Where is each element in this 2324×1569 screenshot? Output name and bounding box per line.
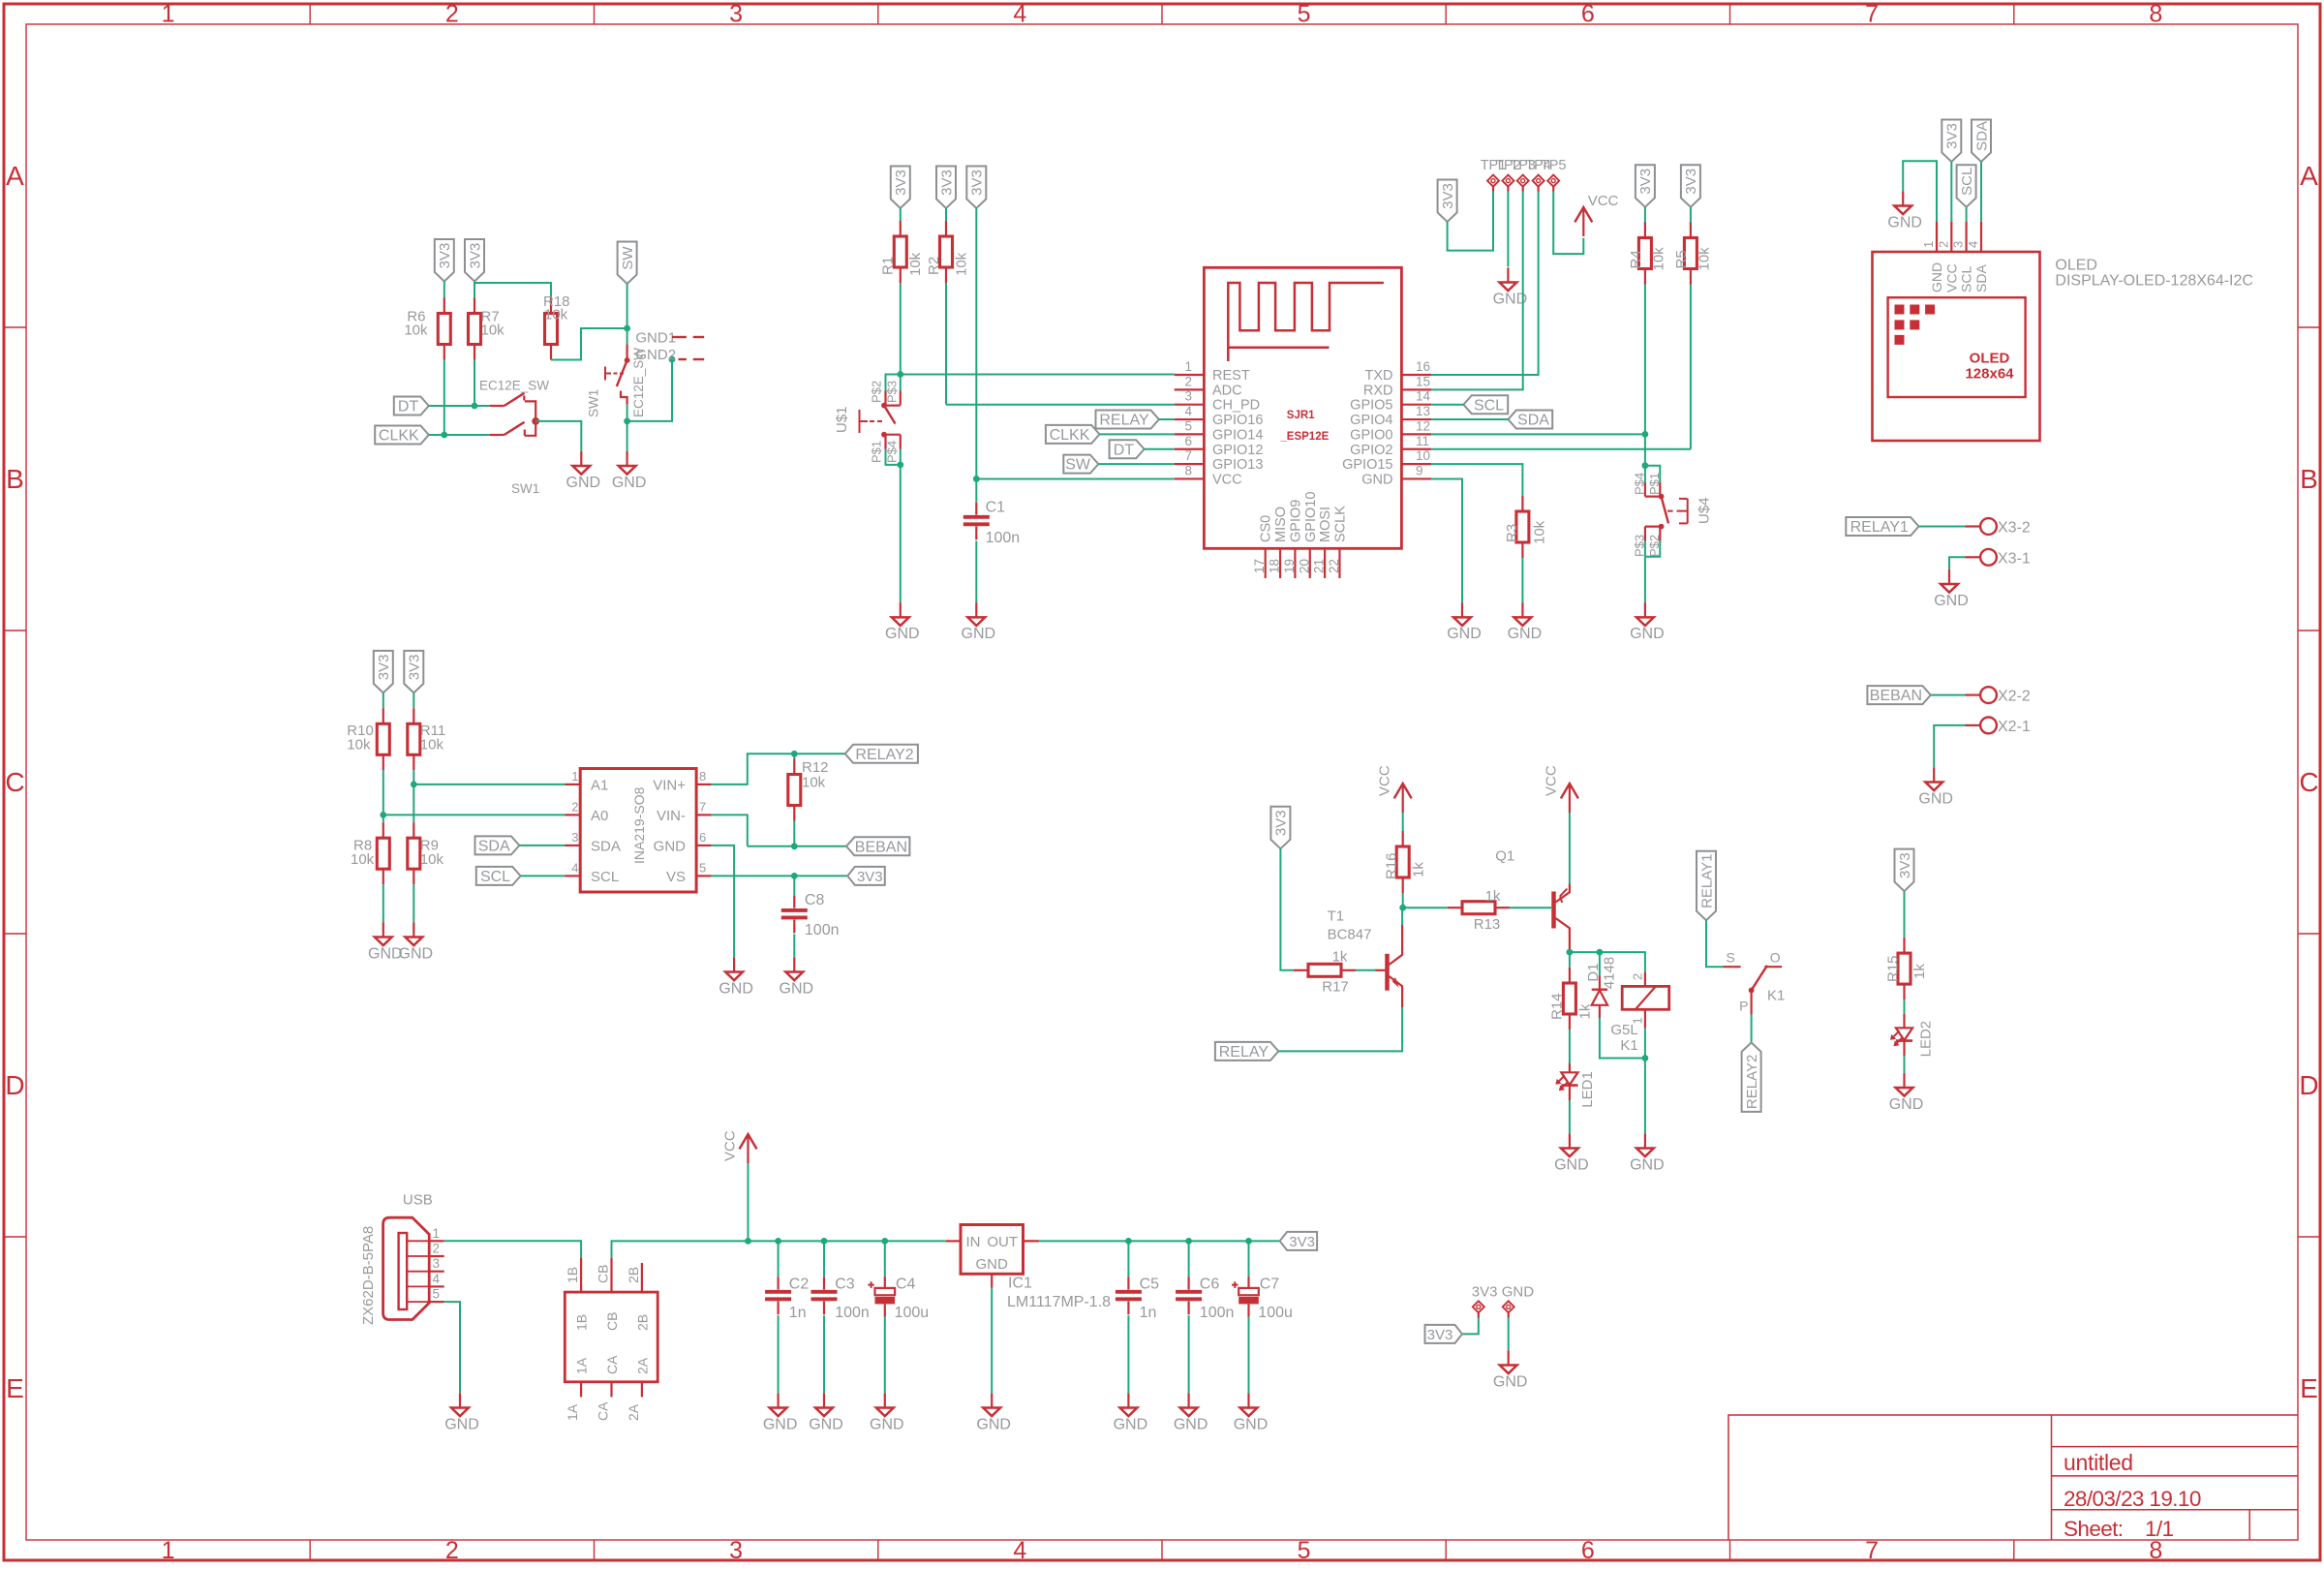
svg-text:GND: GND bbox=[976, 1416, 1011, 1432]
svg-text:P$2: P$2 bbox=[870, 381, 884, 403]
svg-text:4: 4 bbox=[1013, 1537, 1026, 1564]
pin 2 USB bbox=[407, 1255, 429, 1257]
svg-text:CA: CA bbox=[604, 1355, 620, 1374]
svg-text:16: 16 bbox=[1416, 359, 1430, 374]
svg-text:1: 1 bbox=[1184, 359, 1192, 374]
pin 2 ADC bbox=[1175, 388, 1205, 390]
svg-text:3V3: 3V3 bbox=[1273, 810, 1290, 836]
wire GND pin6 bbox=[712, 846, 734, 957]
testpoint TP4 bbox=[1533, 175, 1544, 187]
pin 8 VIN+ bbox=[696, 784, 712, 785]
svg-text:100u: 100u bbox=[895, 1305, 930, 1321]
svg-text:7: 7 bbox=[699, 799, 706, 814]
svg-text:3V3: 3V3 bbox=[1289, 1234, 1315, 1250]
supply flag 3V3 (VS) bbox=[847, 867, 885, 885]
svg-text:2: 2 bbox=[445, 1537, 459, 1564]
svg-text:6: 6 bbox=[1184, 434, 1192, 448]
node bbox=[791, 843, 798, 849]
svg-text:CS0: CS0 bbox=[1259, 515, 1274, 542]
svg-text:1: 1 bbox=[162, 1, 175, 28]
svg-text:10k: 10k bbox=[907, 252, 924, 276]
resistor R6 bbox=[443, 298, 445, 314]
testpoint TP5 bbox=[1547, 175, 1559, 187]
svg-text:TP5: TP5 bbox=[1541, 158, 1567, 173]
net flag SW bbox=[1063, 455, 1098, 474]
wire bbox=[474, 360, 475, 407]
svg-text:2: 2 bbox=[1631, 973, 1645, 980]
svg-text:7: 7 bbox=[1865, 1, 1879, 28]
svg-text:2A: 2A bbox=[634, 1357, 650, 1374]
svg-text:GND: GND bbox=[654, 838, 687, 854]
svg-text:D: D bbox=[2299, 1070, 2318, 1100]
svg-text:P$3: P$3 bbox=[885, 381, 900, 403]
svg-text:E: E bbox=[2300, 1373, 2318, 1403]
wire pin8 net bbox=[976, 477, 1174, 479]
wire bbox=[521, 875, 566, 877]
testpoint GND bbox=[1503, 1301, 1514, 1312]
svg-text:SCL: SCL bbox=[1959, 266, 1974, 292]
pin 14 GPIO5 bbox=[1401, 404, 1431, 406]
wire bbox=[627, 405, 628, 421]
pin 15 RXD bbox=[1401, 388, 1431, 390]
wire bbox=[1098, 463, 1174, 465]
supply flag 3V3 (rail) bbox=[1280, 1232, 1318, 1250]
svg-text:19: 19 bbox=[1282, 559, 1297, 573]
svg-text:6: 6 bbox=[699, 830, 706, 845]
wire bbox=[1521, 558, 1523, 602]
svg-text:4148: 4148 bbox=[1601, 957, 1617, 989]
ground bbox=[1644, 1133, 1646, 1148]
wire bbox=[429, 405, 490, 407]
net flag RELAY bbox=[1215, 1042, 1278, 1061]
wire bbox=[1690, 207, 1692, 225]
svg-text:1A: 1A bbox=[565, 1403, 580, 1421]
wire bbox=[1508, 1318, 1510, 1351]
pin 13 GPIO4 bbox=[1401, 418, 1431, 420]
net flag SCL bbox=[476, 867, 521, 885]
wire bbox=[1569, 813, 1571, 884]
pin CA bbox=[610, 1382, 612, 1398]
supply flag 3V3 (R10) bbox=[374, 651, 393, 693]
pin 4 SDA bbox=[1980, 222, 1982, 252]
svg-text:T1: T1 bbox=[1328, 908, 1345, 925]
resistor R8 bbox=[382, 815, 384, 822]
svg-text:1k: 1k bbox=[1332, 949, 1348, 966]
svg-text:3V3: 3V3 bbox=[1897, 852, 1913, 878]
pin X3-2 bbox=[1966, 525, 1981, 527]
pin 22 SCLK bbox=[1338, 548, 1340, 578]
svg-text:BEBAN: BEBAN bbox=[855, 839, 907, 855]
ground bbox=[1127, 1393, 1129, 1407]
wire emitter net bbox=[1570, 952, 1645, 972]
svg-text:GND: GND bbox=[1918, 790, 1953, 807]
svg-text:CB: CB bbox=[604, 1312, 620, 1331]
wire bbox=[1145, 448, 1175, 450]
net flag BEBAN bbox=[846, 837, 909, 855]
ground bbox=[1508, 1350, 1510, 1365]
svg-text:X3-2: X3-2 bbox=[1998, 520, 2031, 537]
svg-text:X2-2: X2-2 bbox=[1998, 689, 2031, 705]
wire bbox=[1966, 207, 1968, 222]
svg-text:6: 6 bbox=[1581, 1, 1595, 28]
pin 7 VIN- bbox=[696, 814, 712, 815]
node bbox=[1642, 462, 1649, 469]
svg-text:1n: 1n bbox=[1140, 1305, 1157, 1321]
svg-text:GND: GND bbox=[1630, 1156, 1665, 1173]
capacitor C5 bbox=[1125, 1238, 1132, 1245]
net flag RELAY1 bbox=[1846, 517, 1918, 536]
supply flag 3V3 (OLED) bbox=[1942, 120, 1961, 163]
pin 1 GND bbox=[1936, 222, 1938, 252]
resistor R14 bbox=[1569, 952, 1571, 968]
wire pin2 net bbox=[383, 814, 566, 815]
net flag SCL (OLED) bbox=[1957, 165, 1976, 207]
svg-text:10k: 10k bbox=[1651, 247, 1667, 271]
svg-text:OLED: OLED bbox=[1970, 351, 2010, 367]
svg-text:K1: K1 bbox=[1620, 1037, 1637, 1054]
ground bbox=[991, 1393, 993, 1407]
ground bbox=[1903, 1073, 1905, 1088]
ground bbox=[1902, 191, 1904, 205]
node bbox=[441, 432, 447, 439]
resistor R16 bbox=[1402, 831, 1404, 846]
svg-text:1: 1 bbox=[433, 1226, 441, 1241]
supply flag 3V3 (R4) bbox=[1636, 165, 1655, 207]
svg-text:X2-1: X2-1 bbox=[1998, 719, 2031, 735]
svg-text:11: 11 bbox=[1416, 434, 1429, 448]
svg-text:100n: 100n bbox=[835, 1305, 870, 1321]
svg-text:GND: GND bbox=[444, 1416, 479, 1432]
svg-text:LM1117MP-1.8: LM1117MP-1.8 bbox=[1007, 1294, 1111, 1310]
svg-text:DISPLAY-OLED-128X64-I2C: DISPLAY-OLED-128X64-I2C bbox=[2055, 273, 2253, 290]
svg-text:3V3: 3V3 bbox=[467, 243, 483, 269]
svg-text:BEBAN: BEBAN bbox=[1870, 688, 1922, 704]
wire bbox=[382, 692, 384, 708]
svg-text:B: B bbox=[2300, 464, 2318, 494]
svg-text:10k: 10k bbox=[481, 323, 505, 339]
ground bbox=[1461, 602, 1463, 617]
svg-text:C6: C6 bbox=[1200, 1277, 1220, 1293]
svg-text:C3: C3 bbox=[835, 1277, 855, 1293]
power symbol VCC bbox=[1575, 207, 1592, 222]
svg-text:17: 17 bbox=[1252, 559, 1267, 573]
svg-text:RELAY2: RELAY2 bbox=[1744, 1055, 1760, 1109]
power symbol VCC (Q1) bbox=[1561, 784, 1578, 798]
pin 4 USB bbox=[407, 1285, 429, 1287]
svg-text:SCL: SCL bbox=[480, 869, 510, 885]
pin 18 MISO bbox=[1279, 548, 1281, 578]
svg-text:3V3: 3V3 bbox=[938, 169, 955, 196]
wire bbox=[1402, 893, 1404, 908]
wire bbox=[1278, 1007, 1402, 1051]
svg-text:SCL: SCL bbox=[1959, 168, 1975, 196]
svg-text:3V3: 3V3 bbox=[376, 655, 392, 681]
wire bbox=[1448, 192, 1493, 251]
svg-text:U$4: U$4 bbox=[1697, 497, 1713, 524]
resistor R10 bbox=[382, 708, 384, 723]
wire pin5 to GND bbox=[444, 1302, 460, 1393]
svg-text:5: 5 bbox=[1298, 1, 1311, 28]
ground bbox=[1948, 569, 1950, 584]
svg-text:VCC: VCC bbox=[1588, 193, 1619, 209]
svg-text:1k: 1k bbox=[1485, 888, 1501, 905]
svg-text:3V3: 3V3 bbox=[1427, 1327, 1453, 1343]
svg-text:1: 1 bbox=[1921, 241, 1936, 248]
svg-text:B: B bbox=[6, 464, 24, 494]
wire bbox=[1644, 1028, 1646, 1058]
svg-text:GPIO13: GPIO13 bbox=[1212, 457, 1263, 473]
svg-text:3V3: 3V3 bbox=[1440, 183, 1456, 209]
wire bbox=[382, 770, 384, 815]
svg-text:GND: GND bbox=[1114, 1416, 1148, 1432]
svg-text:GND: GND bbox=[612, 475, 647, 491]
ground bbox=[900, 602, 902, 617]
svg-text:U$1: U$1 bbox=[834, 406, 850, 433]
svg-text:LED2: LED2 bbox=[1917, 1021, 1934, 1058]
svg-text:4: 4 bbox=[1966, 241, 1980, 248]
wire bbox=[1904, 1000, 1906, 1014]
capacitor C4 polarized bbox=[881, 1238, 888, 1245]
svg-text:GND: GND bbox=[1508, 626, 1543, 642]
pin X3-1 bbox=[1980, 549, 1997, 566]
ground bbox=[777, 1393, 779, 1407]
svg-text:10k: 10k bbox=[1697, 247, 1713, 271]
wire bbox=[1980, 162, 1982, 222]
antenna meander bbox=[1228, 283, 1384, 361]
node bbox=[1399, 905, 1406, 911]
svg-text:3V3: 3V3 bbox=[1637, 169, 1654, 195]
svg-text:GPIO9: GPIO9 bbox=[1288, 500, 1303, 542]
svg-text:100n: 100n bbox=[1200, 1305, 1235, 1321]
supply flag 3V3 (R6) bbox=[435, 239, 454, 282]
title block bbox=[1728, 1415, 2298, 1540]
net flag DT bbox=[394, 397, 429, 415]
wire bbox=[1403, 907, 1448, 908]
svg-text:IC1: IC1 bbox=[1008, 1276, 1032, 1292]
wire bbox=[1600, 1018, 1645, 1059]
pin 10 GPIO15 bbox=[1401, 463, 1431, 465]
resistor R11 bbox=[413, 708, 414, 723]
ground bbox=[1933, 767, 1935, 782]
svg-text:TXD: TXD bbox=[1365, 368, 1393, 384]
svg-text:GPIO10: GPIO10 bbox=[1303, 492, 1319, 542]
wire bbox=[1569, 1030, 1571, 1063]
wire VIN- net bbox=[712, 815, 846, 846]
svg-text:R12: R12 bbox=[802, 759, 829, 776]
svg-text:100n: 100n bbox=[805, 922, 840, 938]
capacitor C6 bbox=[1185, 1238, 1192, 1245]
svg-text:MISO: MISO bbox=[1273, 507, 1289, 542]
node bbox=[1642, 1055, 1649, 1061]
ground bbox=[1247, 1393, 1249, 1407]
svg-text:GPIO4: GPIO4 bbox=[1350, 413, 1392, 428]
svg-text:3V3: 3V3 bbox=[969, 169, 986, 196]
wire bbox=[975, 208, 977, 478]
svg-text:3V3: 3V3 bbox=[1944, 123, 1961, 149]
svg-text:VCC: VCC bbox=[1943, 263, 1959, 292]
net flag RELAY2 (K1) bbox=[1742, 1042, 1761, 1112]
wire TP5 to VCC bbox=[1553, 192, 1583, 255]
svg-text:VCC: VCC bbox=[1212, 472, 1242, 487]
LED LED2 bbox=[1903, 1014, 1905, 1028]
wire bbox=[793, 821, 795, 846]
wire bbox=[1690, 285, 1692, 449]
svg-text:ADC: ADC bbox=[1212, 383, 1242, 398]
pin 1A bbox=[580, 1382, 582, 1398]
svg-text:SCL: SCL bbox=[591, 869, 619, 885]
wire bbox=[1950, 162, 1952, 222]
svg-text:3V3: 3V3 bbox=[1472, 1284, 1498, 1301]
svg-text:SDA: SDA bbox=[591, 838, 621, 854]
svg-text:2: 2 bbox=[1184, 374, 1192, 388]
svg-text:3: 3 bbox=[1951, 241, 1966, 248]
testpoint TP1 bbox=[1487, 175, 1499, 187]
svg-text:3: 3 bbox=[433, 1256, 441, 1271]
svg-text:GND: GND bbox=[885, 626, 920, 642]
wire bbox=[429, 434, 490, 436]
svg-text:128x64: 128x64 bbox=[1965, 366, 2014, 383]
pin 21 MOSI bbox=[1324, 548, 1326, 578]
wire bbox=[945, 283, 947, 405]
svg-text:RELAY: RELAY bbox=[1219, 1044, 1269, 1061]
svg-text:4: 4 bbox=[433, 1272, 441, 1286]
svg-text:GND: GND bbox=[1554, 1156, 1589, 1173]
supply flag 3V3 (R1) bbox=[891, 167, 910, 209]
wire GPIO0 net bbox=[1431, 433, 1645, 435]
svg-text:15: 15 bbox=[1416, 374, 1430, 388]
pin X2-1 bbox=[1980, 718, 1997, 734]
svg-text:3V3: 3V3 bbox=[857, 869, 883, 885]
svg-text:GND: GND bbox=[1887, 214, 1922, 231]
jumper block solder bridge bbox=[565, 1292, 657, 1382]
svg-text:100u: 100u bbox=[1258, 1305, 1293, 1321]
svg-text:GND: GND bbox=[1630, 626, 1665, 642]
svg-text:VCC: VCC bbox=[1377, 765, 1393, 796]
pin 3 SCL bbox=[1965, 222, 1967, 252]
ground bbox=[884, 1393, 886, 1407]
svg-text:9: 9 bbox=[1416, 463, 1423, 477]
net flag RELAY bbox=[1096, 411, 1159, 429]
wire GPIO15 to R3 bbox=[1431, 464, 1522, 496]
svg-text:10k: 10k bbox=[404, 323, 428, 339]
supply flag 3V3 (R5) bbox=[1681, 165, 1700, 207]
testpoint TP2 bbox=[1502, 175, 1514, 187]
pin 12 GPIO0 bbox=[1401, 433, 1431, 435]
svg-text:10k: 10k bbox=[420, 851, 444, 868]
svg-text:VS: VS bbox=[666, 869, 686, 885]
transistor T1 BC847 bbox=[1376, 969, 1386, 971]
svg-text:GPIO14: GPIO14 bbox=[1212, 427, 1263, 443]
pin 4 SCL bbox=[566, 875, 581, 877]
wire bbox=[1931, 694, 1966, 696]
ground bbox=[1569, 1133, 1571, 1148]
svg-text:10k: 10k bbox=[1532, 520, 1548, 544]
node bbox=[897, 371, 903, 378]
wire CB to rail bbox=[612, 1241, 946, 1257]
wire bbox=[474, 282, 551, 298]
wire bbox=[1904, 1056, 1906, 1073]
svg-text:10k: 10k bbox=[351, 851, 375, 868]
svg-text:13: 13 bbox=[1416, 404, 1430, 418]
node SW-R18 junction bbox=[624, 325, 630, 332]
svg-text:7: 7 bbox=[1184, 448, 1192, 463]
pin 9 GND bbox=[1401, 477, 1431, 479]
svg-text:P: P bbox=[1739, 999, 1748, 1014]
svg-text:VCC: VCC bbox=[1544, 765, 1560, 796]
wire bbox=[551, 328, 627, 360]
wire bbox=[1100, 433, 1175, 435]
svg-text:GPIO12: GPIO12 bbox=[1212, 443, 1263, 458]
connector USB ZX62D-B-5PA8 bbox=[383, 1217, 430, 1319]
svg-text:C: C bbox=[5, 767, 24, 797]
wire TP4 to TXD bbox=[1431, 192, 1539, 376]
svg-text:VIN-: VIN- bbox=[657, 808, 686, 824]
pin 2B bbox=[641, 1263, 643, 1292]
supply flag 3V3 (R15) bbox=[1895, 849, 1914, 892]
svg-text:INA219-SO8: INA219-SO8 bbox=[631, 786, 647, 864]
resistor R3 bbox=[1521, 496, 1523, 511]
ground bbox=[459, 1393, 461, 1407]
net flag SDA bbox=[475, 836, 520, 854]
svg-text:RELAY1: RELAY1 bbox=[1850, 519, 1909, 536]
wire bbox=[945, 208, 947, 221]
svg-text:P$1: P$1 bbox=[870, 441, 884, 463]
svg-text:R2: R2 bbox=[926, 257, 942, 275]
capacitor C2 bbox=[775, 1238, 781, 1245]
pin 16 TXD bbox=[1401, 374, 1431, 376]
wire bbox=[413, 692, 414, 708]
ground bbox=[382, 922, 384, 937]
svg-text:C8: C8 bbox=[805, 892, 825, 908]
power symbol VCC (R16) bbox=[1394, 784, 1412, 798]
pin 8 VCC bbox=[1175, 477, 1205, 479]
node bbox=[624, 418, 630, 425]
switch U$1 bbox=[886, 375, 901, 391]
wire pin3 net bbox=[946, 404, 1175, 406]
supply flag 3V3 (R11) bbox=[404, 651, 423, 693]
svg-text:C1: C1 bbox=[986, 500, 1006, 516]
net flag DT bbox=[1110, 440, 1145, 458]
pin 19 GPIO9 bbox=[1294, 548, 1296, 578]
wire bbox=[900, 465, 902, 602]
svg-text:22: 22 bbox=[1327, 559, 1341, 573]
svg-text:E: E bbox=[6, 1373, 24, 1403]
svg-text:X3-1: X3-1 bbox=[1998, 550, 2031, 567]
wire 3V3 rail bbox=[1039, 1240, 1280, 1242]
svg-text:1n: 1n bbox=[789, 1305, 807, 1321]
svg-text:8: 8 bbox=[2149, 1, 2162, 28]
svg-text:A: A bbox=[6, 161, 24, 191]
net flag BEBAN bbox=[1867, 686, 1930, 704]
svg-text:3: 3 bbox=[729, 1537, 743, 1564]
svg-text:4: 4 bbox=[571, 860, 578, 875]
svg-text:VIN+: VIN+ bbox=[653, 777, 686, 793]
pin 17 CS0 bbox=[1265, 548, 1267, 578]
svg-text:SW: SW bbox=[1065, 457, 1091, 474]
svg-text:GND: GND bbox=[566, 475, 601, 491]
svg-text:1k: 1k bbox=[1911, 964, 1928, 979]
svg-text:GND: GND bbox=[780, 980, 814, 997]
node switch common bbox=[532, 417, 539, 425]
svg-text:SDA: SDA bbox=[1517, 413, 1549, 429]
resistor R17 bbox=[1294, 969, 1308, 971]
wire bbox=[1462, 1318, 1479, 1335]
svg-text:CA: CA bbox=[596, 1401, 611, 1421]
wire bbox=[1356, 969, 1376, 971]
svg-text:C2: C2 bbox=[789, 1277, 810, 1293]
svg-text:C5: C5 bbox=[1140, 1277, 1160, 1293]
capacitor C7 polarized bbox=[1245, 1238, 1252, 1245]
